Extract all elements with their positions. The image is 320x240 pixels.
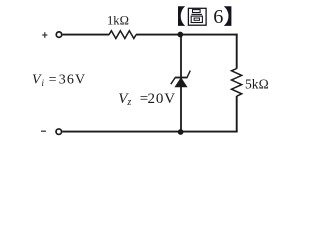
wire: right branch lower segment bbox=[236, 96, 238, 132]
wire: zener branch upper segment bbox=[180, 35, 182, 78]
node junction dot (bottom, zener tap) bbox=[178, 129, 184, 135]
wire: bottom segment bbox=[62, 131, 237, 133]
terminal + (top-left open circle) bbox=[56, 32, 62, 38]
wire: top-right segment from resistor to right corner bbox=[136, 34, 238, 36]
terminal - (bottom-left open circle) bbox=[56, 129, 62, 135]
svg-text:Vi=36V: Vi=36V bbox=[32, 73, 86, 89]
wire: top-left segment from + terminal to resistor bbox=[63, 34, 110, 36]
resistor R1 1kOhm zigzag bbox=[109, 31, 136, 39]
svg-text:1kΩ: 1kΩ bbox=[107, 13, 129, 27]
figure caption character TU (drawn) bbox=[188, 8, 206, 25]
zener diode D1: anode triangle (pointing up) bbox=[175, 78, 187, 87]
plus sign bbox=[42, 32, 47, 37]
resistor R2 5kOhm vertical zigzag bbox=[232, 69, 242, 97]
wire: zener branch lower segment bbox=[180, 87, 182, 133]
zener diode D1: cathode bar with bent ends bbox=[171, 71, 191, 85]
figure caption bracket right (lenticular) bbox=[224, 6, 232, 26]
minus sign bbox=[41, 130, 46, 132]
svg-text:Vz=20V: Vz=20V bbox=[118, 91, 176, 108]
svg-text:6: 6 bbox=[213, 6, 223, 28]
node junction dot (top, zener tap) bbox=[177, 32, 183, 38]
wire: right branch upper segment bbox=[236, 34, 238, 69]
figure caption bracket left (lenticular) bbox=[178, 6, 185, 26]
svg-text:5kΩ: 5kΩ bbox=[245, 77, 269, 92]
